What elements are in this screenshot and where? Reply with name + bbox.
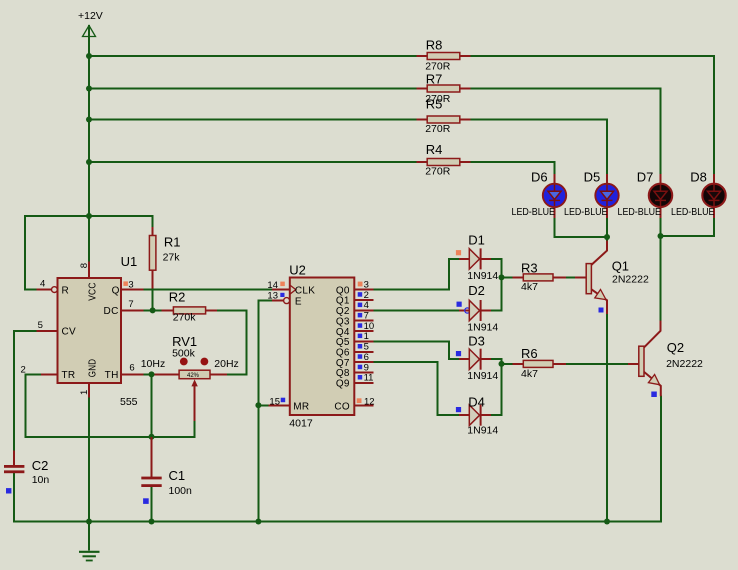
wire C2 bottom to ground rail [13, 473, 15, 522]
svg-text:C2: C2 [32, 458, 49, 473]
resistor R1 27k [149, 227, 180, 289]
svg-text:42%: 42% [187, 373, 200, 379]
resistor R3 4k7 [513, 261, 567, 293]
resistor R6 4k7 [513, 346, 567, 380]
wire R6 left [502, 363, 513, 365]
wire R1 bottom to DC node [152, 291, 154, 311]
wire rail R8 right to D8 column [471, 56, 714, 174]
svg-text:E: E [295, 297, 302, 308]
wire R2 right to RV1 right [217, 310, 247, 374]
wire rail R7 left [89, 88, 416, 90]
wire TH node down [151, 374, 153, 436]
wire Q7 to D4 [373, 362, 459, 415]
wire D6 cathode to node [555, 218, 608, 237]
svg-text:2N2222: 2N2222 [666, 358, 703, 370]
svg-text:D7: D7 [637, 169, 654, 184]
resistor R2 270k [162, 290, 218, 324]
svg-text:Q9: Q9 [336, 379, 350, 390]
svg-text:5: 5 [38, 320, 43, 331]
power +12V [78, 10, 103, 37]
wire D7 cathode to node [660, 218, 662, 236]
diode D3 1N914 [456, 334, 499, 382]
junction power rail R5 [86, 117, 92, 123]
svg-text:U1: U1 [121, 254, 138, 269]
svg-text:R3: R3 [521, 261, 538, 276]
svg-text:GND: GND [88, 359, 99, 378]
svg-text:LED-BLUE: LED-BLUE [512, 206, 556, 218]
svg-text:TR: TR [62, 370, 76, 381]
counter U2 4017 [267, 263, 374, 430]
svg-text:R4: R4 [426, 142, 443, 157]
svg-text:270R: 270R [425, 166, 451, 178]
svg-text:2: 2 [364, 290, 369, 301]
svg-text:R6: R6 [521, 346, 538, 361]
svg-text:D4: D4 [468, 394, 485, 409]
wire Q2 emitter down [660, 396, 662, 521]
wire TH to RV1 left [143, 373, 154, 375]
svg-text:R5: R5 [426, 97, 443, 112]
wire Q2 to D2 [373, 309, 459, 311]
svg-text:1: 1 [79, 390, 90, 395]
LED D5 LED-BLUE lit [564, 169, 619, 218]
svg-text:8: 8 [79, 263, 90, 268]
svg-text:D8: D8 [690, 169, 707, 184]
junction ground rail GND pin [86, 519, 92, 525]
svg-text:1N914: 1N914 [467, 270, 498, 282]
svg-text:100n: 100n [169, 485, 193, 497]
svg-text:DC: DC [104, 306, 119, 317]
svg-text:27k: 27k [163, 252, 181, 264]
svg-text:270R: 270R [425, 123, 451, 135]
resistor R7 270R [416, 72, 470, 106]
svg-text:270k: 270k [173, 312, 197, 324]
svg-text:VCC: VCC [88, 282, 99, 301]
svg-text:6: 6 [129, 363, 134, 374]
wire DC to R2 [143, 309, 161, 311]
svg-text:Q7: Q7 [336, 358, 350, 369]
LED D6 LED-BLUE lit [512, 169, 567, 218]
junction ground rail C1 [149, 519, 155, 525]
svg-text:R7: R7 [426, 72, 443, 87]
wire rail R5 right to D5 column [471, 120, 607, 175]
svg-text:1N914: 1N914 [467, 370, 498, 382]
svg-text:LED-BLUE: LED-BLUE [671, 206, 715, 218]
wire Q1 emitter down [606, 314, 608, 522]
wire Q0 to D1 [373, 259, 459, 290]
svg-text:4k7: 4k7 [521, 281, 538, 293]
junction power rail R7 [86, 86, 92, 92]
resistor R4 270R [416, 142, 470, 178]
wire R3 right to Q1 base [566, 276, 575, 278]
wire rail R7 right to D7 column [471, 89, 661, 175]
svg-text:LED-BLUE: LED-BLUE [618, 206, 662, 218]
wire Q output to CLK [143, 289, 272, 291]
svg-text:Q1: Q1 [336, 296, 350, 307]
diode D2 1N914 [457, 283, 499, 333]
wire GND pin to rail [88, 398, 90, 522]
wire reset loop pin4 to R1 top [25, 216, 153, 290]
svg-text:LED-BLUE: LED-BLUE [564, 206, 608, 218]
wire rail R4 right to D6 column [471, 162, 555, 174]
svg-text:TH: TH [105, 370, 119, 381]
svg-text:C1: C1 [169, 468, 186, 483]
wire rail R4 left [89, 161, 416, 163]
svg-text:+12V: +12V [78, 10, 103, 22]
junction TH node [149, 371, 155, 377]
wire E net [258, 301, 271, 522]
svg-text:R2: R2 [169, 290, 186, 305]
svg-text:2N2222: 2N2222 [612, 274, 649, 286]
transistor Q2 2N2222 [628, 321, 703, 397]
svg-text:Q2: Q2 [667, 340, 684, 355]
svg-text:14: 14 [267, 280, 278, 291]
svg-text:4k7: 4k7 [521, 368, 538, 380]
svg-text:Q3: Q3 [336, 316, 350, 327]
svg-text:13: 13 [267, 291, 278, 302]
svg-text:D2: D2 [468, 283, 485, 298]
junction ground rail Q1 emitter [604, 519, 610, 525]
resistor R5 270R [416, 97, 470, 136]
junction power rail R4 [86, 159, 92, 165]
svg-text:10n: 10n [32, 474, 50, 486]
capacitor C2 10n [4, 450, 49, 493]
svg-text:1: 1 [364, 331, 369, 342]
wire D2 out [491, 277, 501, 310]
svg-text:3: 3 [364, 279, 369, 290]
capacitor C1 100n [141, 437, 192, 504]
svg-text:15: 15 [269, 397, 280, 408]
wire ground rail [14, 521, 661, 523]
wire D3 out [491, 359, 501, 364]
wire D4 out [491, 364, 501, 415]
svg-text:R: R [62, 285, 70, 296]
wire Q5 to D3 [373, 341, 459, 359]
wire rail R8 left [89, 55, 416, 57]
svg-text:10Hz: 10Hz [141, 358, 166, 370]
svg-text:D3: D3 [468, 334, 485, 349]
diode D1 1N914 [456, 232, 499, 281]
svg-text:CO: CO [334, 402, 350, 413]
svg-text:CLK: CLK [295, 286, 315, 297]
svg-text:20Hz: 20Hz [214, 358, 239, 370]
svg-text:6: 6 [364, 352, 369, 363]
wire TR net [26, 374, 152, 436]
svg-text:D6: D6 [531, 169, 548, 184]
junction D7-D8 cathodes [658, 233, 664, 239]
junction power rail R8 [86, 53, 92, 59]
resistor R8 270R [416, 38, 470, 73]
wire C1 bottom to ground rail [151, 487, 153, 522]
transistor Q1 2N2222 [575, 241, 649, 314]
junction DC node [150, 307, 156, 313]
wire +12V stem [88, 26, 90, 262]
svg-text:7: 7 [128, 299, 133, 310]
svg-text:2: 2 [21, 365, 26, 376]
svg-text:4: 4 [40, 279, 45, 290]
wire MR to E net [258, 404, 268, 406]
svg-text:555: 555 [120, 396, 138, 408]
junction D3-D4 to R6 [499, 361, 505, 367]
svg-text:4017: 4017 [289, 418, 313, 430]
wire R3 left [502, 276, 513, 278]
junction VCC node [86, 213, 92, 219]
wire D5 cathode down to Q1 collector [606, 218, 608, 241]
LED D8 LED-BLUE off [671, 169, 726, 218]
svg-text:R1: R1 [164, 235, 181, 250]
svg-text:D5: D5 [584, 169, 601, 184]
wire CV to C2 [14, 331, 37, 450]
svg-text:CV: CV [62, 327, 77, 338]
junction D5-D6 cathodes [604, 234, 610, 240]
potentiometer RV1 500k [141, 334, 239, 421]
diode D4 1N914 [456, 394, 499, 436]
wire R6 right to Q2 base [566, 363, 628, 365]
svg-text:Q5: Q5 [336, 337, 350, 348]
svg-text:Q: Q [112, 285, 120, 296]
junction ground rail E net [255, 519, 261, 525]
svg-text:MR: MR [293, 402, 309, 413]
wire wiper net [152, 421, 195, 437]
svg-text:Q1: Q1 [612, 259, 629, 274]
wire D8 cathode to node [661, 218, 715, 236]
svg-text:1N914: 1N914 [467, 425, 498, 437]
wire D1 out [491, 259, 501, 278]
junction TR-C1 node [149, 434, 155, 440]
svg-text:7: 7 [364, 311, 369, 322]
svg-text:1N914: 1N914 [467, 321, 498, 333]
svg-text:Q0: Q0 [336, 285, 350, 296]
LED D7 LED-BLUE off [618, 169, 673, 218]
junction D1-D2 to R3 [499, 274, 505, 280]
wire node to Q2 collector [660, 236, 662, 321]
junction MR-E node [255, 402, 261, 408]
ground [79, 522, 100, 561]
svg-text:11: 11 [364, 373, 374, 384]
svg-text:500k: 500k [172, 347, 196, 359]
op-amp U1 555 timer [21, 254, 144, 408]
svg-text:U2: U2 [289, 263, 306, 278]
svg-text:12: 12 [364, 397, 375, 408]
svg-text:3: 3 [128, 280, 133, 291]
wire rail R5 left [89, 119, 416, 121]
svg-text:D1: D1 [468, 232, 485, 247]
svg-text:R8: R8 [426, 38, 443, 53]
